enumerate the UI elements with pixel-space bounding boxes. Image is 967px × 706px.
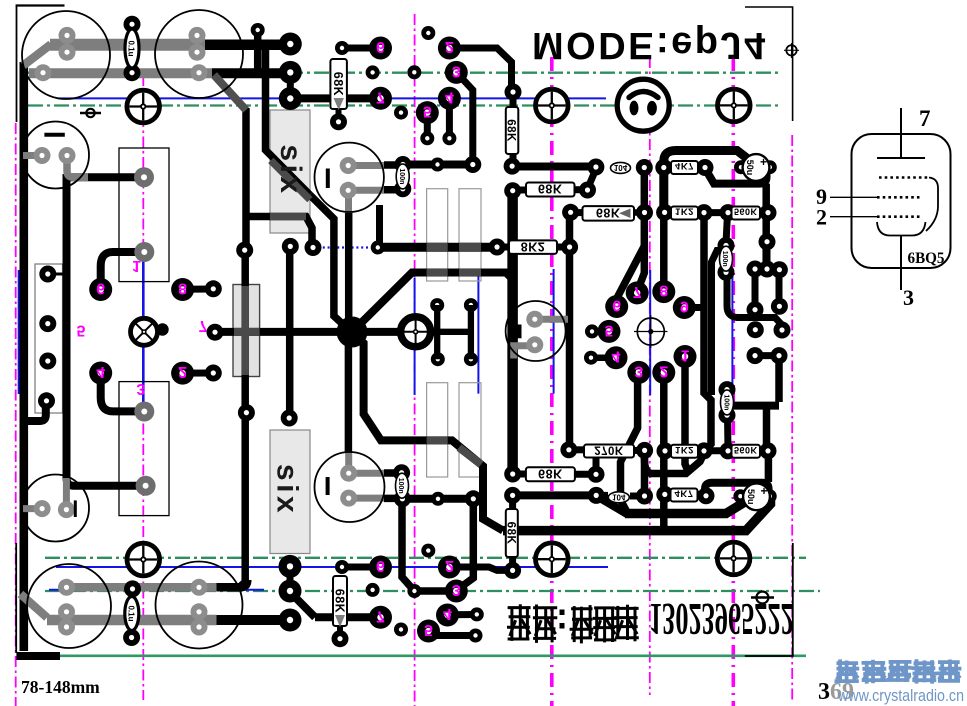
blue dotted link y=247.5 [318,246,377,248]
wire link x=290.3 [287,72,294,98]
svg-text:5: 5 [605,321,614,338]
tube circle C4 driver upper [315,143,384,212]
pad [656,204,673,221]
svg-text:50u: 50u [746,489,756,505]
wire 100n2 bottom link [724,416,732,450]
pad gray [340,182,357,199]
pad [747,301,764,318]
wire row y=617.3 pin7 [315,613,381,621]
pad gray [189,27,206,44]
wire bottom pin5 link [429,631,476,636]
wire top socket pin3 run [457,73,473,164]
svg-text:0.1u: 0.1u [126,605,135,621]
wire connector elbow [25,402,46,421]
svg-text:6: 6 [376,557,385,574]
label six lower [271,464,304,516]
svg-text:104: 104 [614,163,628,172]
jumper hole top left [80,109,101,117]
svg-text:3: 3 [634,362,643,379]
resistor 68K vertical mid-top [505,107,519,154]
wire stub x=257.7 [254,30,262,73]
wire right loop top [664,151,748,213]
label six upper [274,144,307,196]
pad [636,442,653,459]
svg-text:0.1u: 0.1u [127,40,136,56]
pad gray [59,147,76,164]
wire blob north [345,212,353,325]
svg-text:5: 5 [424,621,433,638]
pad large [445,61,468,84]
resistor body left [233,285,260,377]
svg-text:8K2: 8K2 [521,240,545,254]
pad [504,562,521,579]
pad [281,410,298,427]
gray stub circle3 left [23,152,42,159]
wire blob to grid rail [352,273,513,333]
pad [771,298,788,315]
pad large [171,278,194,301]
registration target 1 [127,90,160,123]
wire bottom column x=473.3 [458,500,474,590]
capacitor outline pale rect 3 [427,383,448,477]
capacitor 0.1u bottom [125,597,139,631]
wire 68Kh top stubs [513,187,526,194]
svg-text:2: 2 [445,38,454,55]
wire jumper x=755 [752,269,759,310]
pad gray [526,336,543,353]
wire 100n top link [726,214,728,243]
svg-text:six: six [271,464,304,516]
svg-text:3: 3 [452,62,461,79]
green board bottom edge line [59,654,806,657]
resistor 1K2 top [671,206,698,220]
dim segment resistor vertical [241,286,249,375]
pad small [335,560,349,574]
pad large [605,295,628,318]
phone number mirrored [649,594,794,644]
watermark CJK blue [836,661,857,681]
wire pin4 link right socket [591,354,616,361]
pad [560,441,577,458]
pad [588,487,605,504]
pad small [394,106,408,120]
pad small [734,160,748,174]
pad [562,204,579,221]
pad [697,159,714,176]
registration target 6 [717,542,750,575]
wire anode column x=644.3 [638,168,644,290]
pad small [407,65,421,79]
pad large [445,580,468,603]
svg-text:68K: 68K [504,522,516,545]
magenta centerline x=414.6 [414,14,416,706]
wire pin8 rail x=663.8 upper [660,217,668,286]
wire 4K7 top stubs [663,164,672,171]
svg-text:1K2: 1K2 [675,444,694,455]
gray elbow circle3 [67,156,88,178]
pad small [420,131,434,145]
pad [579,182,596,199]
pad [394,490,411,507]
svg-text:50u: 50u [745,160,755,176]
svg-text:8: 8 [659,282,668,299]
svg-text:4: 4 [443,605,452,622]
pad small [251,23,265,37]
wire 4K7 bottom stubs [665,491,671,498]
pad large [279,33,302,56]
wire row y=498.8 [402,495,473,503]
wire jumper x=767 [764,242,771,269]
pad [657,442,674,459]
svg-text:2: 2 [178,363,187,380]
pad large [89,362,112,385]
wire 270K column x=569.5 [566,213,574,448]
pad [39,315,56,332]
wire 68K box trace bottom [509,497,516,569]
capacitor 100n right bottom [721,390,734,415]
dim segment resistor horizontal [234,328,260,336]
pad [207,324,224,341]
connector frame far-left [35,264,63,413]
socket frame lower [119,382,169,516]
pot thin cross circle [634,315,668,348]
wire pin5 stub [424,113,431,139]
svg-text:7: 7 [376,607,385,624]
pad [38,392,55,409]
wire link x=290 bottom [287,566,294,591]
green centerline horizontal y=557.8 [45,557,806,559]
pad gray [340,157,357,174]
pad [587,159,604,176]
pad [124,64,141,81]
pad [636,204,653,221]
wire C7 row segments [384,469,402,477]
pad [489,239,506,256]
wire six diagonal feed [266,45,311,195]
svg-text:2: 2 [659,362,668,379]
pad [330,113,347,130]
pad [771,347,788,364]
wire top socket pin6 link [342,45,381,52]
svg-text:560K: 560K [734,207,758,217]
blue vertical x=19.8 [18,270,20,394]
pad gray [191,579,208,596]
gray bottom bar2 [47,615,217,626]
pad gray [58,603,75,620]
svg-text:13023965222: 13023965222 [649,594,794,644]
pad [205,365,222,382]
blue vertical x=732.4 [731,272,733,386]
svg-text:3: 3 [903,285,914,310]
wire driver circle feed [376,205,383,246]
pad small [763,160,777,174]
green centerline horizontal y=105.5 [28,104,782,106]
svg-text:7: 7 [376,88,385,105]
pad gray [191,64,208,81]
blue vertical x=143.3 [142,252,145,411]
pad large [279,61,302,84]
svg-text:8: 8 [178,280,187,297]
gray bottom bar2 diag [21,594,48,618]
capacitor 50u bottom [743,483,770,510]
wire row450 bridge bottom [705,447,728,454]
svg-text:1: 1 [681,347,690,364]
svg-text:6BQ5: 6BQ5 [908,250,945,267]
pad large [369,606,392,629]
svg-text:100n: 100n [398,168,405,184]
svg-text:4: 4 [445,88,454,105]
wire vertical x=779 down [775,356,783,402]
pad small [371,241,385,255]
svg-text:5: 5 [423,103,432,120]
wire bottom bar1 black part [217,580,248,587]
H trim component [431,305,471,359]
svg-text:3: 3 [452,581,461,598]
pad small [442,131,456,145]
gray bottom bar1 [67,583,217,592]
wire pin6 feed [618,246,644,303]
resistor 68K vertical left-bottom [333,576,348,626]
resistor 68K vertical left-top [330,59,347,109]
pad small [431,352,445,366]
wire pin8 link left socket [183,286,214,293]
wire grid rail vertical x=512.6 [507,192,518,470]
capacitor 104 bottom [608,492,629,503]
tube circle C5 output [506,301,566,361]
pad [205,280,222,297]
pad large [652,280,675,303]
wire bar y=473.5 [650,452,705,474]
wire link y=355.6 [755,352,779,359]
magenta centerline x=143.3 [142,75,144,700]
wire blob south run [354,334,503,531]
pad [305,239,322,256]
pad small [733,489,747,503]
pad [636,488,653,505]
pad gray [59,27,76,44]
capacitor 100n left top [396,164,409,189]
wire 560K bottom drop [765,453,773,482]
registration target 5 [536,543,569,576]
magenta centerline x=15.7 [15,123,17,706]
pad large [416,101,439,124]
resistor 68K horizontal bottom [526,467,575,482]
pin numbers magenta [77,38,690,638]
pad large [279,609,302,632]
pad small [464,352,478,366]
svg-text:six: six [274,144,307,196]
fan symbol [131,318,169,345]
resistor 68K horizontal mid [583,205,635,220]
pad gray [59,44,76,61]
pad small [366,583,380,597]
resistor 4K7 bottom [671,488,698,502]
gray link x=66.4 [63,478,70,510]
wire branch to bottom circle [345,345,353,452]
svg-text:4K7: 4K7 [675,488,694,499]
svg-text:68K: 68K [538,467,562,481]
pad [760,442,777,459]
wire blob northwest [310,195,348,329]
svg-text:7: 7 [199,317,208,334]
screw hole bottom right [751,592,774,604]
pad gray large [134,242,154,262]
pad [505,84,522,101]
wire 270K stubs [569,446,584,453]
pad [718,264,735,281]
wire mid column vertical [239,252,245,588]
transformer body six upper [270,110,310,233]
wire pin6 elbow left socket [101,252,142,290]
svg-text:2: 2 [816,205,827,230]
pad [655,159,672,176]
pad gray [340,490,357,507]
blue bus line y=589.8 [49,589,264,591]
pad small [763,489,777,503]
wire bottom bar2 y=620 [212,615,290,625]
pad [747,261,764,278]
svg-text:+: + [761,484,768,498]
wire vertical x=766.5 bottom [763,406,771,448]
tube circle C6 [22,475,89,542]
svg-text:4K7: 4K7 [675,160,694,171]
pad large [279,580,302,603]
board outline left edge [16,6,18,123]
wire resistor row stubs bottom [665,447,672,454]
wire tee y=216.5 [247,217,312,245]
wire blob to trimmer [352,328,402,336]
svg-text:270K: 270K [594,444,624,456]
wire row212 bridge top [705,209,728,216]
can capacitor circle C2 [155,10,243,98]
tube circle C7 driver lower [315,452,385,522]
svg-text:68K: 68K [505,119,517,142]
wire bottom column x=402.4 [402,500,414,591]
wire x=644.4 branch [644,458,652,474]
blue vertical x=414.6 [414,278,416,396]
svg-text:7: 7 [633,283,642,300]
junction blob [337,317,368,348]
wire left rail x=24.6 [19,62,28,651]
pad [774,322,791,339]
wire row y=495.4 [513,491,597,499]
pad small [584,351,598,365]
pad [123,629,140,646]
pad large [652,361,675,384]
gray stub circle6 left [23,505,42,512]
wire 68K bottom stubs [513,471,525,478]
pad large [417,620,440,643]
wire bottom socket pin6 link [342,564,381,571]
board outline top-left corner [16,4,65,6]
wire grid feed elbow [727,272,782,325]
dim segment pale rect row272 a [427,269,448,277]
wire left long vertical x=66.5 [67,174,139,486]
wire pin2 rail x=663.8 lower [660,377,668,529]
svg-text:78-148mm: 78-148mm [21,677,100,697]
capacitor 104 top [611,162,631,173]
capacitor outline pale rect 1 [427,189,448,281]
wire row y=98.4 to pin7 [290,94,380,102]
wire 4K7 bottom elbow [705,483,769,494]
gray stubs driver circle upper [348,162,384,169]
pad gray [191,619,208,636]
wire pin1 run [685,357,689,474]
wire top bar y=44.3 [75,40,290,51]
pad [504,182,521,199]
registration target 4 [127,543,160,576]
pad large [438,556,461,579]
capacitor 0.1u top [125,29,139,68]
pad [561,239,578,256]
wire bar y=166.5 [512,163,596,171]
svg-text:2: 2 [445,557,454,574]
pad [332,630,349,647]
board outline left edge lower [15,543,17,653]
wire 4K7 top elbow [706,170,767,184]
pad small [421,26,435,40]
resistor 4K7 top [671,160,698,174]
pad small [431,492,445,506]
blue vertical x=478.4 [477,271,479,394]
pad [394,180,411,197]
gray stubs output tube [535,316,568,323]
svg-text:7: 7 [919,106,931,131]
pad large [436,604,459,627]
green centerline horizontal y=72.7 [28,72,781,74]
wire branch diagonal gray [214,75,246,110]
svg-text:www.crystalradio.cn: www.crystalradio.cn [837,687,964,705]
wire top socket pin2 run [449,48,511,90]
wire pin3 run x=621.8 [621,376,638,514]
svg-text:100n: 100n [397,478,404,494]
pad [282,238,299,255]
pad [747,347,764,364]
svg-text:+: + [760,155,767,169]
wire coupling vertical x=289.7 [286,248,294,418]
svg-text:5: 5 [77,322,86,339]
svg-text:3: 3 [137,380,146,397]
pad [719,381,736,398]
pad large [369,556,392,579]
resistor 560K top [732,207,761,220]
pad large [598,320,621,343]
resistor 270K [584,444,634,458]
dim segment pale rect diag [459,448,481,465]
pad large [605,346,628,369]
pad [588,466,605,483]
wire row y=164.5 [403,161,473,169]
wire column x=704 [704,213,711,450]
pad small [585,324,599,338]
wire pin9 link [686,304,704,311]
resistor 68K vertical mid-bottom [504,509,518,557]
pad [504,487,521,504]
wire pad596 feed [593,456,600,472]
registration target 2 [536,89,569,122]
registration target 3 [718,89,751,122]
wire diag to pin7 row [290,592,315,617]
pad [464,156,481,173]
capacitor 100n right top [720,246,733,271]
gray stubs driver circle lower [349,470,384,477]
wire jumper x=779 [776,269,783,306]
svg-text:68K: 68K [538,182,562,196]
wire connector stub [55,273,68,276]
capacitor 50u top [743,154,770,181]
wire pin5 link right socket [592,329,609,334]
pad [636,159,653,176]
